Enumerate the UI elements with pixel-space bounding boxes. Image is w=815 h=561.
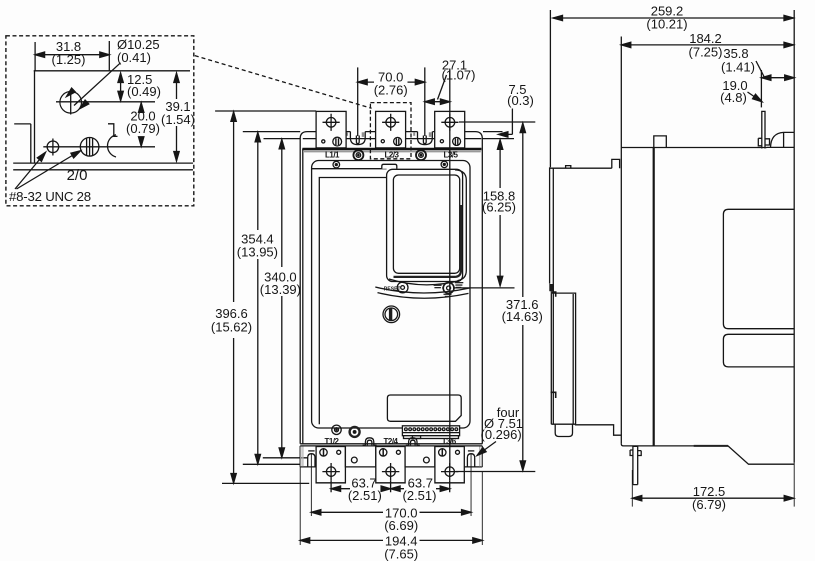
- side bottom pin: [633, 446, 638, 484]
- dial tiny texts: [434, 282, 464, 297]
- detail: big hole circle: [60, 92, 82, 114]
- svg-text:(13.39): (13.39): [260, 282, 301, 297]
- terminal lug L1/1: [316, 111, 346, 147]
- extension line 354.4 bottom: [243, 463, 300, 465]
- extension ledge right to 7.5 dim: [482, 138, 514, 140]
- svg-text:(6.69): (6.69): [384, 518, 418, 533]
- leaders to tapped holes: [15, 152, 79, 190]
- extension line hole centers right: [459, 121, 535, 123]
- side heatsink recess upper: [723, 209, 794, 328]
- dimension 172.5: [631, 470, 633, 507]
- svg-text:(1.54): (1.54): [161, 112, 195, 127]
- dimension 340.0: [281, 140, 283, 457]
- keypad window bezel: [387, 169, 463, 281]
- svg-text:(7.65): (7.65): [384, 546, 418, 561]
- detail box dashed border: [6, 36, 194, 206]
- label T1/2: [324, 437, 339, 446]
- dial: [442, 281, 455, 295]
- label T3/6: [442, 437, 457, 446]
- dimension 371.6: [522, 124, 524, 471]
- side cover hinge blob: [549, 284, 554, 291]
- svg-text:(0.3): (0.3): [507, 93, 534, 108]
- leader four holes: [480, 442, 497, 454]
- reset button: [397, 282, 408, 293]
- extension front cover: [549, 10, 551, 167]
- extension line 396.6 bottom: [222, 482, 309, 484]
- svg-text:RESET: RESET: [384, 287, 401, 293]
- detail: lower screw: [80, 138, 99, 157]
- door bottom curve 2: [378, 293, 469, 299]
- dimension 20.0: [140, 103, 142, 147]
- label T2/4: [383, 437, 398, 446]
- label L1/1: [325, 151, 340, 160]
- control terminal strip: [402, 426, 459, 439]
- bottom lug band bottom edge: [316, 482, 464, 484]
- dimension 354.4: [257, 133, 259, 464]
- svg-text:2/0: 2/0: [67, 167, 88, 184]
- callout dashed line to front view: [195, 56, 372, 109]
- dimension 63.7 right: [391, 488, 450, 490]
- extension line 70.0 left: [357, 67, 359, 136]
- side cover top edge: [550, 167, 612, 169]
- terminal lug L2/3: [376, 111, 406, 147]
- side top clip step: [612, 159, 620, 168]
- bottom gap block 2: [405, 447, 435, 467]
- door screw right: [441, 161, 447, 167]
- dimension 259.2: [553, 17, 794, 19]
- svg-text:(6.25): (6.25): [482, 200, 516, 215]
- label #8-32 UNC 28: [9, 189, 91, 204]
- dimension 35.8: [761, 77, 794, 79]
- svg-text:(4.8): (4.8): [720, 90, 747, 105]
- door bottom curve 1: [375, 287, 470, 293]
- detail: bottom lines: [13, 162, 193, 164]
- side body step vertical: [620, 148, 622, 444]
- side terminal cover panel: [551, 293, 575, 424]
- side bottom edge and slope: [621, 444, 794, 464]
- detail: screw arc: [108, 135, 116, 157]
- side back corner piece: [771, 132, 795, 147]
- window inner shadow heavy edge: [394, 205, 462, 277]
- svg-text:(15.62): (15.62): [211, 320, 252, 335]
- extension line body top left: [243, 131, 300, 133]
- side cover top bump: [566, 166, 571, 169]
- svg-text:(1.41): (1.41): [721, 59, 755, 74]
- side bottom step: [575, 425, 621, 435]
- bottom gap block 1: [345, 447, 375, 467]
- dimension 12.5: [120, 74, 122, 101]
- svg-text:(6.79): (6.79): [692, 497, 726, 512]
- bottom right foot: [464, 446, 482, 467]
- dimension 158.8: [499, 140, 501, 285]
- extension line lug tops left: [215, 110, 316, 112]
- side top mounting tab: [654, 136, 667, 148]
- extension line slot bottom left: [263, 457, 308, 459]
- ohm hook right: [406, 438, 420, 446]
- long extension line through right lug: [449, 69, 451, 469]
- terminal lug L3/5: [435, 111, 465, 147]
- dimension 170.0: [311, 454, 471, 516]
- bottom lug T2/4 block: [376, 447, 405, 483]
- reset label: [384, 287, 401, 293]
- label four dia 7.51: [481, 405, 524, 442]
- detail: lug top edge: [34, 70, 190, 72]
- side back bracket tang: [762, 111, 765, 148]
- svg-text:(2.51): (2.51): [348, 488, 382, 503]
- front view body outline: [300, 132, 482, 444]
- extension body step: [620, 37, 622, 148]
- dimension 27.1: [425, 101, 450, 103]
- side back plane: [793, 132, 795, 462]
- dimension 396.6: [233, 112, 235, 482]
- ohm hook left: [363, 438, 377, 446]
- svg-text:(7.25): (7.25): [689, 44, 723, 59]
- extension line 70.0 right: [424, 67, 426, 136]
- dimension 19.0 leader: [748, 92, 759, 100]
- top notch left: [350, 132, 365, 145]
- label L2/3: [384, 151, 399, 160]
- label L3/5: [443, 151, 458, 160]
- dimension 184.2: [621, 44, 793, 46]
- bottom band top double line: [300, 443, 482, 445]
- washer screw left on band: [353, 150, 363, 160]
- svg-text:(0.296): (0.296): [481, 427, 522, 442]
- dashed callout rect around lug L2/3: [370, 103, 411, 159]
- door bottom hex screw: [350, 427, 360, 437]
- door top tab: [382, 164, 397, 168]
- detail: notch step: [108, 124, 118, 137]
- dimension 39.1: [176, 74, 178, 161]
- svg-text:(2.51): (2.51): [403, 488, 437, 503]
- door screw left: [333, 161, 340, 168]
- detail: lower small hole: [47, 141, 59, 153]
- svg-text:(2.76): (2.76): [374, 83, 408, 98]
- side enclosure front heavy edge: [653, 148, 655, 446]
- dimension 194.4: [300, 467, 482, 545]
- svg-text:T2/4: T2/4: [383, 437, 398, 446]
- door inner offset left: [319, 178, 386, 425]
- svg-text:(0.41): (0.41): [117, 50, 151, 65]
- svg-text:(1.25): (1.25): [52, 52, 86, 67]
- side back plane lower extension: [793, 463, 795, 507]
- detail: hole centerline upper: [56, 101, 155, 103]
- window bezel outer right line: [455, 170, 466, 281]
- detail: leader from dia label: [74, 63, 121, 106]
- front view body inner left edge: [302, 149, 304, 444]
- side front cover lines: [549, 167, 551, 283]
- side back bracket clips: [758, 138, 769, 146]
- quarter turn fastener: [383, 306, 400, 323]
- bottom lug T1/2 block: [316, 447, 345, 483]
- detail: lug left edge: [34, 71, 36, 163]
- svg-text:(0.79): (0.79): [126, 121, 160, 136]
- door top band line: [312, 168, 387, 170]
- top notch right: [418, 132, 433, 145]
- detail: body step left: [14, 124, 31, 163]
- side heatsink recess lower: [723, 334, 794, 367]
- svg-text:(10.21): (10.21): [646, 16, 687, 31]
- keypad window opening: [393, 175, 459, 273]
- extension line ledge left: [264, 138, 303, 140]
- dimension 7.5: [507, 82, 534, 108]
- svg-text:T1/2: T1/2: [324, 437, 339, 446]
- bottom left foot: [300, 446, 316, 467]
- svg-text:L2/3: L2/3: [384, 151, 399, 160]
- extension bracket tang: [760, 70, 762, 107]
- svg-text:#8-32 UNC 28: #8-32 UNC 28: [9, 189, 91, 204]
- detail: hole centerline lower: [43, 146, 155, 148]
- bottom lug T3/6 block: [435, 447, 464, 483]
- svg-text:(13.95): (13.95): [237, 244, 278, 259]
- svg-text:L3/5: L3/5: [443, 151, 458, 160]
- front door outline: [312, 161, 470, 429]
- side cover foot: [551, 423, 575, 425]
- label dia 10.25: [117, 37, 160, 65]
- svg-text:L1/1: L1/1: [325, 151, 340, 160]
- nameplate label: [387, 395, 461, 421]
- front view ledge line: [303, 138, 482, 140]
- svg-text:(0.49): (0.49): [127, 84, 161, 99]
- dimension 63.7 left: [331, 463, 450, 492]
- washer screw right on band: [416, 150, 426, 160]
- extension back plane upper: [793, 10, 795, 132]
- detail: 2/0 marking: [67, 167, 88, 184]
- heavy top band: [302, 148, 481, 151]
- door bottom washer screw: [332, 425, 341, 434]
- side body top edge: [621, 147, 767, 149]
- window lens arc: [389, 279, 461, 285]
- notch shading bits: [346, 132, 432, 137]
- svg-text:(1.07): (1.07): [442, 68, 476, 83]
- svg-text:(14.63): (14.63): [502, 309, 543, 324]
- dimension 70.0: [358, 81, 425, 83]
- dimension 31.8: [35, 41, 109, 71]
